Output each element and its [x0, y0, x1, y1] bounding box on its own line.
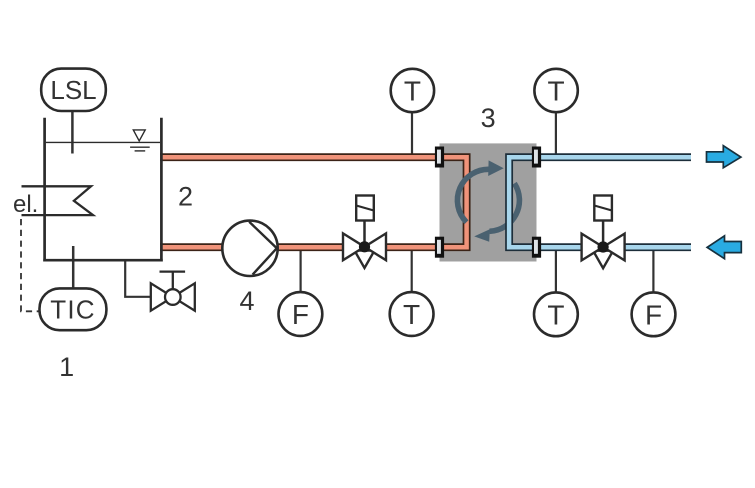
wire: stem pipe to F bubble (hot)	[300, 247, 302, 293]
svg-text:T: T	[548, 76, 565, 107]
electric heater element	[22, 186, 94, 215]
svg-text:4: 4	[239, 286, 254, 316]
flow arrow in (bottom right)	[707, 236, 741, 259]
instrument LSL	[41, 69, 106, 111]
wire: stem cold pipe to F bubble (lower)	[652, 247, 654, 293]
level indicator symbol	[130, 130, 150, 151]
label 2	[178, 182, 193, 212]
wire: stem T bubble to hot pipe (top)	[411, 111, 413, 157]
control valve V2 on cold pipe	[582, 196, 625, 269]
wire: stem from tank to TIC	[72, 246, 75, 290]
instrument F cold	[632, 292, 676, 336]
label el.	[13, 191, 38, 218]
instrument TIC	[40, 288, 107, 330]
flange hot outlet	[435, 237, 444, 258]
flange hot inlet	[435, 147, 444, 168]
instrument T cold lower	[534, 292, 578, 336]
label 1	[59, 352, 74, 382]
svg-text:T: T	[403, 299, 420, 330]
svg-text:el.: el.	[13, 191, 38, 218]
svg-text:LSL: LSL	[50, 75, 96, 105]
pipe: hot water loop (red)	[160, 157, 467, 247]
instrument T top hot	[391, 69, 434, 112]
svg-text:T: T	[547, 299, 564, 330]
wire: stem pipe to T bubble (hot lower)	[411, 247, 413, 293]
flange cold inlet	[532, 237, 541, 258]
pipe: cold water loop (blue)	[509, 157, 691, 247]
tank liquid level line	[46, 141, 160, 143]
manual valve at tank drain	[151, 272, 195, 311]
svg-text:TIC: TIC	[50, 295, 95, 325]
wire: stem from LSL into tank	[71, 110, 74, 154]
control valve V1 on hot pipe	[343, 196, 386, 269]
svg-text:2: 2	[178, 182, 193, 212]
instrument F hot	[279, 292, 323, 336]
svg-text:F: F	[645, 299, 662, 330]
svg-text:3: 3	[481, 103, 496, 133]
wire: dashed control line el. to TIC	[21, 219, 39, 311]
label 4	[239, 286, 254, 316]
svg-text:T: T	[404, 76, 421, 107]
instrument T hot lower	[390, 292, 434, 336]
wire: tank drain to manual valve	[125, 259, 151, 297]
wire: stem cold pipe to T bubble (lower)	[555, 247, 557, 293]
svg-text:1: 1	[59, 352, 74, 382]
svg-text:F: F	[292, 299, 309, 330]
heat exchanger U3 body	[440, 143, 537, 261]
flange cold outlet	[532, 147, 541, 168]
tank T1 walls	[43, 118, 162, 262]
flow arrow out (top right)	[707, 146, 741, 168]
pump P4	[222, 221, 277, 276]
label 3	[481, 103, 496, 133]
circulation arrows in heat exchanger	[457, 160, 519, 241]
instrument T top cold	[534, 69, 577, 112]
wire: stem T bubble to cold pipe (top)	[555, 111, 557, 157]
